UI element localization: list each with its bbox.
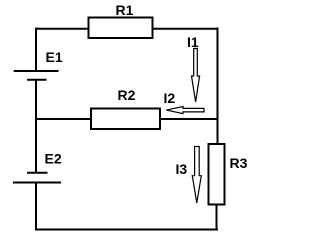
svg-text:E1: E1 — [46, 49, 63, 65]
svg-text:I3: I3 — [176, 161, 188, 177]
wire: top-right segment — [153, 28, 219, 30]
wire: middle-left segment — [35, 118, 92, 120]
svg-text:R2: R2 — [118, 87, 136, 103]
wire: bottom segment — [35, 229, 218, 231]
battery E1 — [14, 71, 59, 80]
current arrow I3 — [192, 147, 201, 204]
battery E2 — [13, 173, 61, 183]
resistor R1 — [89, 18, 153, 39]
wire: top-left segment — [35, 28, 89, 30]
wire: left middle segment — [35, 80, 37, 173]
resistor R3 — [209, 144, 225, 205]
current arrow I1 — [192, 49, 200, 103]
resistor R2 — [91, 109, 160, 130]
svg-text:R1: R1 — [116, 2, 134, 18]
wire: left lower segment — [35, 183, 37, 231]
svg-text:R3: R3 — [230, 155, 248, 171]
wire: left upper segment — [35, 28, 37, 72]
current arrow I2 — [166, 107, 204, 114]
svg-text:I1: I1 — [187, 34, 199, 50]
wire: middle-right segment — [160, 118, 219, 120]
svg-text:E2: E2 — [45, 151, 62, 167]
svg-text:I2: I2 — [164, 90, 176, 106]
wire: right lower segment — [216, 205, 218, 231]
wire: right upper segment — [217, 28, 219, 145]
